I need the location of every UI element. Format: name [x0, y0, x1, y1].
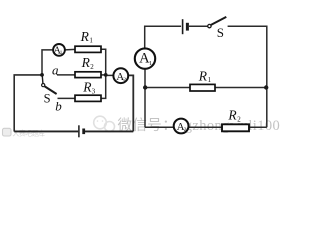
wire: bottom branch to A2 — [145, 126, 174, 128]
wire: battery to switch pivot — [189, 25, 208, 27]
node: left junction of R1 branch — [143, 85, 147, 89]
svg-text:1: 1 — [60, 50, 63, 56]
ammeter A1 (right) — [135, 48, 155, 68]
ammeter A2 (right) — [174, 119, 189, 134]
wire: A1 to R1 — [65, 48, 75, 51]
svg-text:微信号：dgzhongwuli100: 微信号：dgzhongwuli100 — [118, 117, 281, 134]
wire: switch to top-right corner down — [228, 26, 267, 127]
wire: R2 to right vertical — [101, 74, 106, 76]
svg-text:R: R — [80, 29, 90, 44]
svg-text:a: a — [52, 62, 59, 77]
switch S selector (left) — [42, 76, 57, 94]
node: right junction of R1 branch — [264, 85, 268, 89]
resistor R1 (right) with label — [190, 68, 215, 91]
wire: battery to bottom-right corner — [85, 130, 134, 132]
wire: R1 right corner down — [101, 49, 106, 75]
resistor R3 (left) with label — [75, 79, 101, 101]
svg-text:S: S — [44, 91, 51, 105]
wire: left vertical below A1 — [144, 70, 146, 128]
wire: R1 branch left — [145, 87, 190, 89]
svg-text:R: R — [81, 55, 91, 70]
resistor R2 (left) with label — [75, 55, 101, 78]
svg-text:3: 3 — [92, 87, 96, 95]
wire: junction to A2 — [106, 74, 114, 76]
switch S (right) — [208, 17, 227, 28]
wire: contact a to R2 — [57, 74, 75, 76]
svg-text:1: 1 — [208, 76, 212, 84]
svg-text:1: 1 — [149, 60, 152, 67]
wire: contact b to R3 — [58, 97, 76, 99]
svg-text:2: 2 — [237, 115, 241, 123]
svg-text:2: 2 — [123, 77, 126, 83]
svg-text:2: 2 — [184, 127, 187, 133]
svg-text:2: 2 — [90, 63, 94, 71]
battery (right) — [183, 19, 188, 34]
wire: top-left corner to battery — [145, 26, 181, 48]
svg-text:R: R — [227, 108, 237, 123]
watermark wechat logo — [94, 116, 115, 131]
svg-text:b: b — [55, 99, 62, 114]
svg-text:1: 1 — [89, 37, 93, 45]
wire: R2 to bottom-right corner — [249, 126, 267, 128]
wire: top-left corner up to A1 — [42, 50, 53, 75]
wire: left stub and left side — [14, 75, 42, 131]
svg-text:大赛吧题库: 大赛吧题库 — [13, 129, 46, 138]
ammeter A2 (left main line) — [113, 68, 128, 83]
svg-text:S: S — [217, 25, 224, 40]
svg-text:R: R — [198, 68, 208, 83]
wire: R1 branch right — [215, 87, 267, 89]
resistor R2 (right) with label — [222, 108, 249, 132]
node: junction right of R2 — [104, 73, 108, 77]
battery (left) — [79, 125, 84, 137]
node: junction at switch pivot feed — [40, 73, 44, 77]
resistor R1 (left) with label — [75, 29, 101, 53]
wire: A2 right corner down to bottom — [128, 75, 133, 131]
wire: bottom left to battery — [14, 130, 78, 132]
ammeter A1 (left) — [53, 44, 65, 56]
wire: right vertical down to R3 — [101, 75, 106, 99]
watermark corner stamp — [3, 128, 46, 137]
wire: A2 to R2 — [189, 126, 223, 128]
